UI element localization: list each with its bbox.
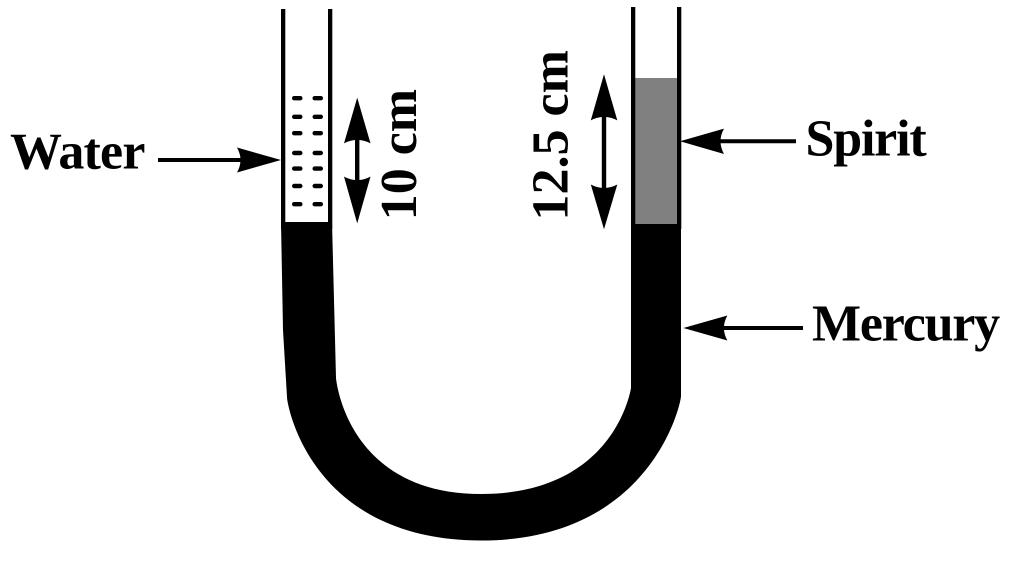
12.5cm arrow top head <box>591 74 618 120</box>
arrow to water: line <box>158 158 245 162</box>
arrow to mercury: head <box>683 316 727 341</box>
12.5cm arrow bottom head <box>591 185 618 230</box>
right tube left wall <box>631 7 635 229</box>
arrow to mercury: line <box>721 326 803 330</box>
arrow to spirit: head <box>680 129 724 154</box>
water dashes <box>292 96 323 206</box>
svg-text:10 cm: 10 cm <box>371 89 428 220</box>
svg-text:Spirit: Spirit <box>806 111 928 168</box>
right tube right wall <box>677 7 681 229</box>
12.5cm arrow shaft <box>602 112 606 193</box>
10cm arrow top head <box>344 98 371 144</box>
spirit column fill <box>635 78 678 224</box>
svg-text:12.5 cm: 12.5 cm <box>523 50 580 220</box>
arrow to water: head <box>237 148 281 173</box>
10cm arrow bottom head <box>344 177 371 224</box>
left tube left wall <box>281 9 285 229</box>
arrow to spirit: line <box>718 139 796 143</box>
svg-text:Mercury: Mercury <box>812 296 1000 353</box>
mercury U column <box>281 222 681 541</box>
left tube right wall <box>328 9 332 229</box>
svg-text:Water: Water <box>10 123 145 180</box>
10cm arrow shaft <box>355 135 359 186</box>
